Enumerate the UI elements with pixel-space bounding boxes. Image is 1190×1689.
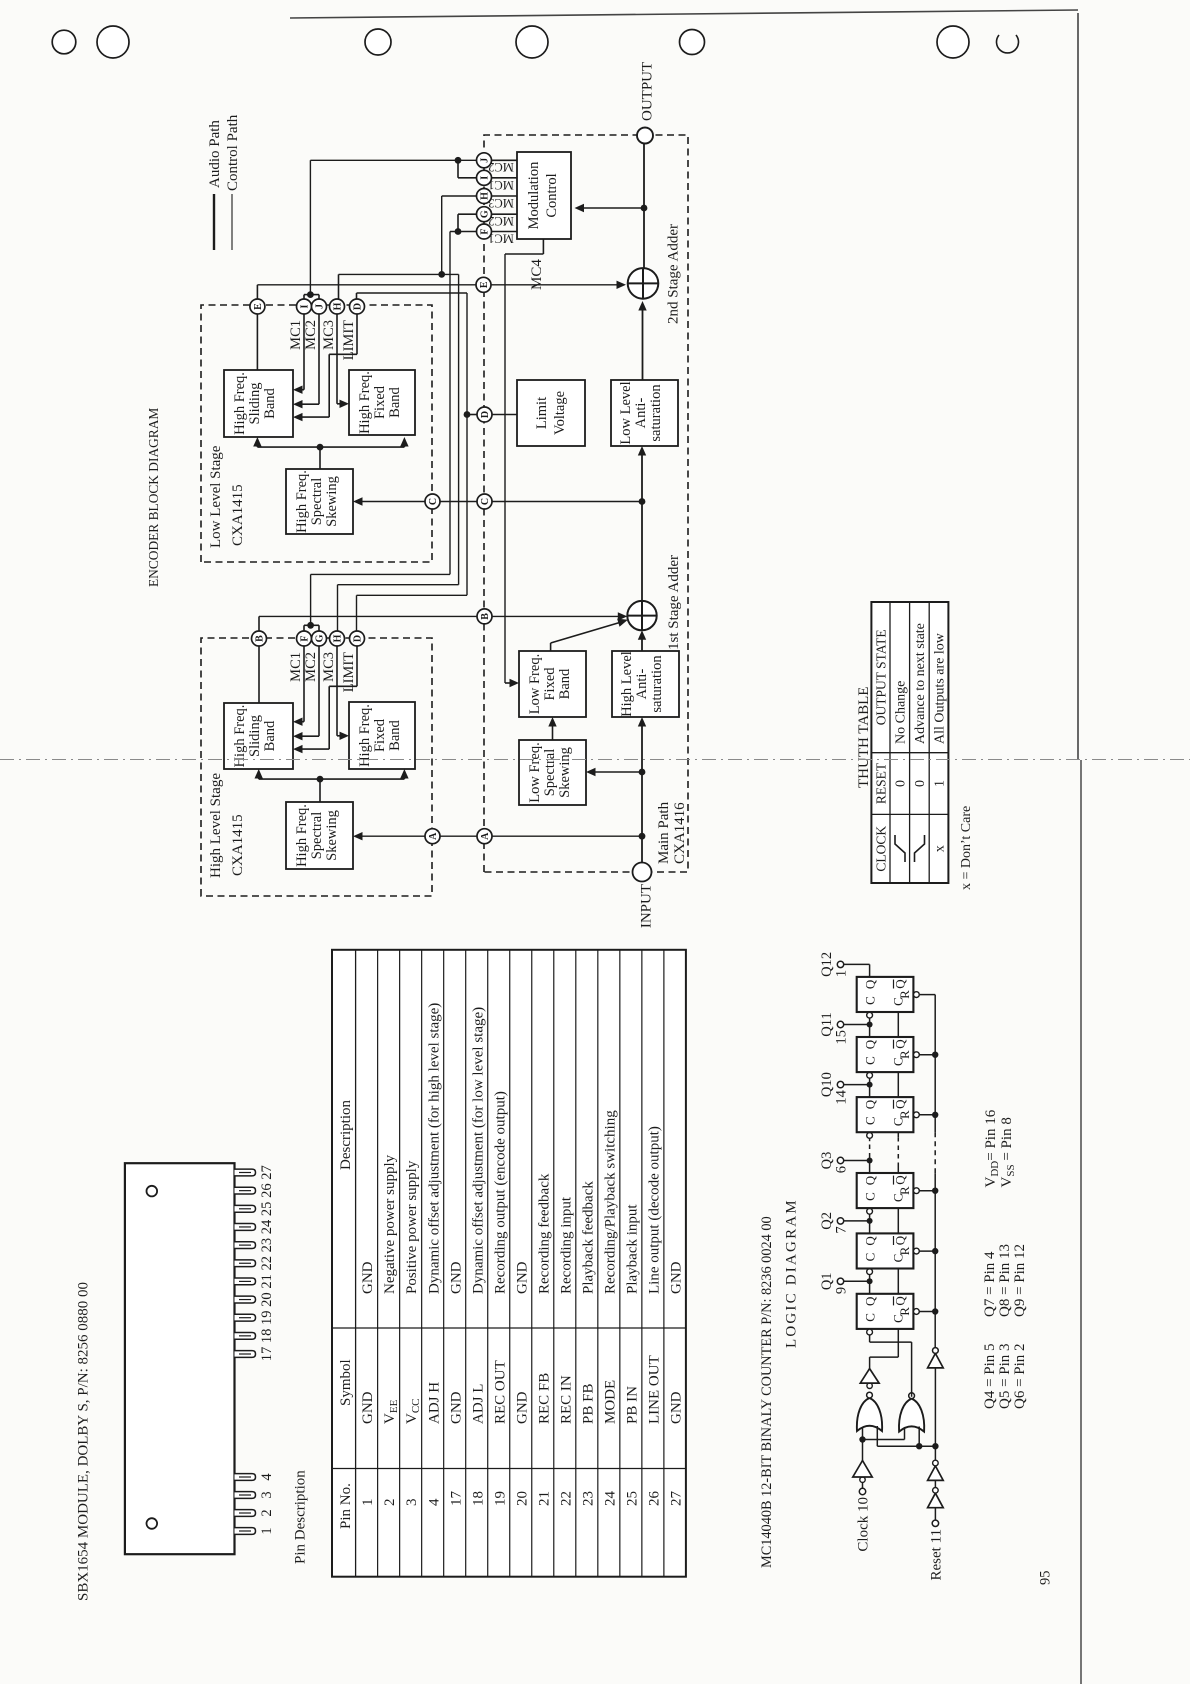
reset input bubble Q10 [914,1112,920,1118]
svg-text:R: R [897,1050,912,1059]
svg-text:C: C [863,1192,878,1201]
module pins 17-27 [235,1351,256,1358]
box: High Freq. Spectral Skewing (low level) [286,469,353,534]
buffer after gate 1 [867,1383,872,1388]
svg-text:A: A [428,832,439,840]
svg-text:Low Freq.: Low Freq. [527,742,543,802]
svg-text:ENCODER BLOCK DIAGRAM: ENCODER BLOCK DIAGRAM [146,408,161,587]
svg-text:Q8 = Pin 13: Q8 = Pin 13 [997,1244,1013,1317]
svg-text:Recording/Playback switching: Recording/Playback switching [602,1110,618,1294]
clock falling edge symbol [915,835,925,862]
svg-text:1: 1 [259,1527,275,1534]
wire: feedback to modulation control [578,207,644,209]
reset branch to gates [932,1443,938,1449]
svg-text:GND: GND [448,1261,464,1294]
net C: main line to low level spectral skewing [357,501,642,503]
svg-text:4: 4 [259,1473,275,1481]
box: Modulation Control [517,152,571,239]
svg-text:Negative power supply: Negative power supply [382,1154,398,1294]
svg-text:saturation: saturation [649,655,665,713]
svg-text:Pin No.: Pin No. [338,1483,354,1529]
svg-text:MODE: MODE [602,1380,618,1424]
clock inverter [860,1477,865,1482]
svg-text:Q: Q [893,1039,908,1049]
svg-text:H: H [480,192,491,200]
svg-text:3: 3 [404,1499,420,1507]
node H (low level edge) [330,299,345,314]
node E (low level edge) [250,299,265,314]
reset input bubble Q1 [914,1309,920,1315]
svg-text:19: 19 [259,1310,275,1325]
net E: low level E to 2nd stage adder [256,285,258,299]
svg-text:High Freq.: High Freq. [294,470,310,533]
node C (main) [477,494,492,509]
module mounting hole right [147,1186,158,1197]
output tap Q of Q12 [869,964,871,977]
svg-text:D: D [480,411,491,418]
svg-text:F: F [480,228,491,234]
wire: low level anti-sat to 2nd adder [642,305,644,380]
svg-text:Reset 11: Reset 11 [929,1529,945,1581]
svg-text:Voltage: Voltage [552,391,568,435]
svg-text:22: 22 [259,1256,275,1271]
svg-text:6: 6 [834,1166,850,1173]
wire: E from sliding band (low level) [256,314,258,370]
svg-text:23: 23 [580,1491,596,1506]
scan page bottom border line [1077,13,1079,760]
svg-text:CLOCK: CLOCK [874,826,889,872]
svg-text:C: C [428,498,439,505]
wire: MC3 stub H into fixed band (low level) [336,314,338,404]
reset buffer 2 [928,1466,944,1481]
reset input terminal [932,1520,938,1526]
wire Q Q3 to next stage C [869,1158,871,1161]
svg-text:High Freq.: High Freq. [357,704,373,767]
box: High Freq. Sliding Band (low level) [224,370,293,437]
svg-text:D: D [353,303,364,310]
svg-text:GND: GND [360,1391,376,1424]
module body outline [125,1163,235,1554]
net B: high level B to 1st stage adder [258,616,260,631]
svg-text:27: 27 [259,1165,275,1180]
wire clock to gate2 [863,1439,905,1441]
legend: control path line [231,194,233,250]
svg-text:F: F [300,635,311,641]
svg-text:High Freq.: High Freq. [232,705,248,768]
svg-text:Q9 = Pin 12: Q9 = Pin 12 [1012,1244,1028,1317]
svg-text:Q: Q [863,1175,878,1185]
svg-text:0: 0 [894,780,909,787]
scan page right border line [290,10,1078,18]
svg-text:MC3: MC3 [321,320,337,350]
svg-text:R: R [897,1307,912,1316]
svg-text:Band: Band [387,386,403,417]
wire: node D to limit voltage [492,414,518,416]
svg-text:14: 14 [834,1089,850,1104]
svg-text:24: 24 [602,1491,618,1507]
INPUT terminal [633,863,652,882]
svg-text:19: 19 [492,1491,508,1506]
flip-flop stage Q11 [857,1037,914,1072]
svg-text:R: R [897,1110,912,1119]
svg-text:RESET: RESET [874,762,889,804]
clock rising edge symbol [895,835,905,862]
svg-text:1: 1 [834,970,850,977]
svg-text:REC FB: REC FB [536,1373,552,1424]
svg-text:CXA1415: CXA1415 [230,484,246,546]
node I (low level edge) [297,299,312,314]
svg-text:High Freq.: High Freq. [232,372,248,435]
svg-text:x: x [933,845,948,852]
wire Qbar Q11 to next stage [897,1012,899,1037]
svg-text:1st Stage Adder: 1st Stage Adder [666,555,682,650]
svg-text:27: 27 [668,1491,684,1507]
svg-text:25: 25 [624,1491,640,1506]
svg-text:R: R [897,990,912,999]
svg-text:Q: Q [863,1099,878,1109]
svg-text:Anti-: Anti- [633,398,649,429]
svg-text:J: J [315,304,326,309]
net D: high level D / low level D / main D / limit voltage [356,595,358,631]
svg-text:18: 18 [470,1491,486,1506]
wire: low freq fixed band to 1st adder (diagonal) [550,643,552,651]
flip-flop stage Q12 [857,977,914,1012]
node B (main) [477,609,492,624]
svg-text:saturation: saturation [648,384,664,442]
svg-text:20: 20 [259,1292,275,1307]
svg-text:PB IN: PB IN [624,1386,640,1424]
svg-text:2: 2 [382,1499,398,1507]
svg-text:0: 0 [913,780,928,787]
node E (main) [476,277,491,292]
svg-text:4: 4 [426,1498,442,1506]
svg-text:x = Don’t Care: x = Don’t Care [959,806,974,890]
svg-text:All Outputs are low: All Outputs are low [933,632,948,744]
svg-text:Low Level: Low Level [618,381,634,444]
wire Qbar Q10 to next stage [897,1072,899,1097]
svg-text:Fixed: Fixed [372,718,388,752]
svg-text:Q6 = Pin 2: Q6 = Pin 2 [1012,1343,1028,1409]
svg-text:MC1: MC1 [288,320,304,350]
box: High Level Anti-saturation [612,651,679,717]
net F/G: high level F,G to main F,G [303,625,305,631]
svg-text:PB FB: PB FB [580,1384,596,1424]
svg-text:17: 17 [448,1491,464,1507]
svg-text:Skewing: Skewing [324,476,340,527]
net H: high level H / low level H / main H [337,585,339,631]
svg-text:Q: Q [893,1175,908,1185]
svg-text:C: C [480,498,491,505]
wire: MC3 stub H into fixed band (high level) [336,646,338,736]
svg-text:C: C [863,1253,878,1262]
OUTPUT terminal [637,128,653,144]
svg-text:A: A [480,832,491,840]
op: 1st Stage Adder [627,601,656,630]
output tap Q of Q3 [869,1161,871,1174]
box: Limit Voltage [517,380,585,446]
box: Low Freq. Spectral Skewing [519,740,586,805]
svg-text:B: B [480,613,491,620]
wire: spectral skewing output split (low level) [319,447,321,469]
svg-text:2nd Stage Adder: 2nd Stage Adder [666,224,682,324]
svg-text:GND: GND [448,1391,464,1424]
svg-text:SBX1654 MODULE, DOLBY S, P/N:: SBX1654 MODULE, DOLBY S, P/N: 8256 0880 … [76,1282,92,1601]
net A: main line to high level spectral skewing [357,835,642,837]
svg-text:VSS = Pin 8: VSS = Pin 8 [999,1117,1017,1187]
svg-text:ADJ L: ADJ L [470,1384,486,1424]
svg-text:24: 24 [259,1219,275,1234]
svg-text:Q7 = Pin 4: Q7 = Pin 4 [982,1251,998,1317]
reset buffer 3 [928,1353,944,1368]
punch holes [52,30,76,54]
wire Q Q1 to next stage C [869,1275,871,1281]
wire: MC1 stub F (high level) [303,646,305,722]
svg-text:MC1: MC1 [288,652,304,682]
node H (main) [477,189,492,204]
svg-text:LOGIC DIAGRAM: LOGIC DIAGRAM [784,1198,800,1348]
box: High Freq. Sliding Band (high level) [224,703,293,769]
block: Low Level Stage CXA1415 (dashed) [201,305,432,562]
svg-text:B: B [255,635,266,642]
node I (main) [477,170,492,185]
svg-text:9: 9 [834,1287,850,1294]
svg-text:Spectral: Spectral [542,749,558,797]
svg-text:MC4: MC4 [529,259,545,290]
node J (low level edge) [312,299,327,314]
wire Qbar Q2 to next stage [897,1208,899,1233]
svg-text:ADJ H: ADJ H [426,1382,442,1424]
svg-text:LIMIT: LIMIT [341,652,357,692]
node C (low level bottom edge) [425,494,440,509]
svg-text:Audio Path: Audio Path [207,120,223,188]
svg-text:THUTH TABLE: THUTH TABLE [856,687,872,788]
wire: spectral skewing output split (high level) [319,779,321,802]
svg-text:GND: GND [668,1391,684,1424]
svg-text:Band: Band [262,387,278,418]
flip-flop stage Q2 [857,1233,914,1268]
wires: modulation control input stubs F G H I J [492,231,518,233]
svg-text:20: 20 [514,1491,530,1506]
wire: spectral skewing to fixed band (low freq) [552,721,554,740]
svg-text:High Freq.: High Freq. [294,804,310,867]
svg-text:REC IN: REC IN [558,1375,574,1424]
reset rail [934,1173,936,1347]
node D (high level edge) [350,631,365,646]
svg-text:OUTPUT STATE: OUTPUT STATE [874,629,889,725]
node F (main) [477,224,492,239]
wire: 1st adder to low level anti-sat [641,450,643,601]
svg-text:MC2: MC2 [303,652,319,682]
svg-text:25: 25 [259,1202,275,1217]
svg-text:Skewing: Skewing [557,747,573,798]
svg-text:R: R [897,1246,912,1255]
wire: high level anti-sat to 1st adder [641,634,643,651]
clock input terminal [859,1488,865,1494]
svg-text:Fixed: Fixed [542,667,558,701]
svg-text:Positive power supply: Positive power supply [404,1160,420,1294]
svg-text:Recording feedback: Recording feedback [536,1173,552,1294]
wire: MC4 output to low freq fixed band [542,239,544,254]
wire Q Q2 to next stage C [869,1215,871,1221]
svg-text:OUTPUT: OUTPUT [640,62,656,121]
svg-text:D: D [353,635,364,642]
wire: 2nd adder to OUTPUT [643,143,645,269]
wire: junction to low freq spectral skewing [590,771,642,773]
NOR gate 2 (clock phase 2) [899,1399,924,1432]
box: High Freq. Spectral Skewing (high level) [286,802,353,869]
svg-text:Low Freq.: Low Freq. [527,654,543,714]
flip-flop stage Q3 [857,1173,914,1208]
svg-text:Control Path: Control Path [225,114,241,191]
svg-text:G: G [315,634,326,642]
svg-text:Q5 = Pin 3: Q5 = Pin 3 [997,1343,1013,1409]
output tap Q of Q11 [869,1025,871,1038]
node H (high level edge) [330,631,345,646]
svg-text:H: H [333,302,344,310]
svg-text:CXA1416: CXA1416 [672,802,688,864]
svg-text:Main Path: Main Path [656,801,672,864]
output tap Q of Q10 [869,1085,871,1098]
svg-text:Band: Band [557,668,573,699]
svg-text:Sliding: Sliding [247,383,263,425]
wire gate2 to stage1 C bubble [911,1342,913,1397]
wire: MC1 stub I (low level) [303,314,305,390]
svg-text:Fixed: Fixed [372,385,388,419]
svg-text:MC3: MC3 [321,652,337,682]
block: High Level Stage CXA1415 (dashed) [201,638,432,896]
svg-text:Q: Q [893,1099,908,1109]
svg-text:High Level: High Level [619,651,635,717]
svg-text:GND: GND [514,1391,530,1424]
wire: MC2 stub G (high level) [318,646,320,737]
svg-text:Q: Q [893,979,908,989]
box: Low Freq. Fixed Band [519,651,586,717]
svg-text:I: I [300,304,311,308]
svg-text:E: E [253,303,264,310]
NOR gate 1 (clock) [857,1398,882,1431]
svg-text:C: C [863,996,878,1005]
svg-text:Recording output (encode outpu: Recording output (encode output) [492,1091,508,1294]
box: High Freq. Fixed Band (low level) [349,370,415,435]
node G (main) [477,207,492,222]
node D (main) [477,407,492,422]
svg-text:GND: GND [360,1261,376,1294]
svg-text:C: C [863,1056,878,1065]
node D (low level edge) [350,299,365,314]
svg-text:Advance to next state: Advance to next state [913,623,928,744]
svg-text:G: G [480,210,491,218]
fold line (dash-dot) [0,759,1190,761]
svg-text:High Freq.: High Freq. [357,371,373,434]
node G (high level edge) [312,631,327,646]
svg-text:Band: Band [262,720,278,751]
svg-text:R: R [897,1186,912,1195]
svg-text:Q: Q [893,1296,908,1306]
svg-text:Modulation: Modulation [526,161,542,229]
svg-text:18: 18 [259,1329,275,1344]
svg-text:Playback input: Playback input [624,1204,640,1294]
svg-text:Playback feedback: Playback feedback [580,1181,596,1294]
svg-text:MC14040B 12-BIT BINALY COUNTER: MC14040B 12-BIT BINALY COUNTER P/N: 8236… [759,1216,775,1568]
wire: LIMIT stub D (high level) [356,646,358,687]
svg-text:Band: Band [387,719,403,750]
flip-flop stage Q10 [857,1097,914,1132]
svg-text:High Level Stage: High Level Stage [208,773,224,878]
pin description table grid [332,950,686,1577]
wire gate1 to stage1 lower C [869,1357,871,1369]
svg-text:7: 7 [834,1226,850,1233]
svg-text:Q: Q [863,1039,878,1049]
svg-text:Recording input: Recording input [558,1196,574,1294]
svg-text:Q4 = Pin 5: Q4 = Pin 5 [982,1343,998,1409]
wire: MC2 stub J (low level) [318,314,320,404]
svg-text:E: E [479,281,490,288]
svg-text:Clock 10: Clock 10 [856,1497,872,1552]
block: Main Path CXA1416 (dashed) [484,135,688,872]
module mounting hole left [147,1518,158,1529]
node B (high level edge) [252,631,267,646]
svg-text:Spectral: Spectral [309,812,325,860]
output tap Q of Q2 [869,1221,871,1234]
svg-text:LIMIT: LIMIT [341,320,357,360]
box: Low Level Anti-saturation [611,380,678,446]
svg-text:26: 26 [646,1491,662,1507]
svg-text:Spectral: Spectral [309,478,325,526]
op: 2nd Stage Adder [628,268,659,299]
reset input bubble Q2 [914,1248,920,1254]
module pins 1-4 [235,1528,256,1535]
svg-text:Limit: Limit [534,397,550,429]
output tap Q of Q1 [869,1281,871,1294]
svg-text:Low Level Stage: Low Level Stage [208,445,224,548]
svg-text:J: J [480,158,491,163]
svg-text:23: 23 [259,1238,275,1253]
svg-text:15: 15 [834,1030,850,1045]
svg-text:Q: Q [893,1235,908,1245]
svg-text:Symbol: Symbol [338,1359,354,1406]
svg-text:Q: Q [863,1296,878,1306]
svg-text:C: C [863,1116,878,1125]
svg-text:Q: Q [863,1236,878,1246]
wire: B from sliding band (high level) [258,646,260,704]
wire: LIMIT stub D (low level) [356,314,358,354]
svg-text:22: 22 [558,1491,574,1506]
svg-text:95: 95 [1038,1571,1054,1586]
svg-text:REC OUT: REC OUT [492,1360,508,1424]
svg-text:MC2: MC2 [303,320,319,350]
net J/I: low level I,J to main J,I [303,295,305,299]
svg-text:21: 21 [536,1491,552,1506]
wire Qbar Q1 to next stage [897,1269,899,1294]
legend: audio path line [213,194,215,250]
svg-text:26: 26 [259,1183,275,1198]
svg-text:LINE OUT: LINE OUT [646,1355,662,1424]
svg-text:2: 2 [259,1509,275,1516]
svg-text:Q: Q [863,979,878,989]
truth table grid [871,602,948,883]
svg-text:I: I [480,176,491,180]
svg-text:3: 3 [259,1491,275,1498]
wire Q Q10 to next stage C [869,1079,871,1085]
main audio line [641,721,643,863]
node J (main) [477,153,492,168]
svg-text:17: 17 [259,1347,275,1362]
node A (high level bottom edge) [425,829,440,844]
svg-text:1: 1 [933,780,948,787]
svg-text:Pin Description: Pin Description [293,1470,309,1564]
svg-text:1: 1 [360,1499,376,1507]
svg-text:Anti-: Anti- [634,669,650,700]
